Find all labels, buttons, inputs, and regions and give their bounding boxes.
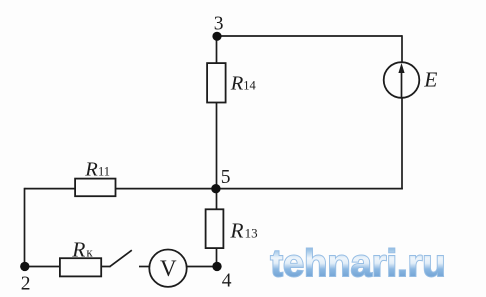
svg-text:2: 2 (21, 274, 31, 295)
svg-text:R: R (84, 158, 98, 180)
svg-text:14: 14 (243, 78, 256, 92)
svg-text:R: R (71, 237, 85, 261)
svg-text:4: 4 (222, 271, 232, 292)
svg-text:3: 3 (214, 14, 224, 35)
svg-text:E: E (423, 67, 437, 91)
svg-text:13: 13 (245, 226, 258, 241)
svg-text:к: к (86, 244, 93, 259)
svg-text:5: 5 (221, 167, 231, 188)
svg-text:V: V (160, 256, 177, 281)
svg-text:R: R (229, 219, 243, 243)
svg-text:R: R (230, 72, 244, 94)
svg-text:11: 11 (98, 164, 110, 178)
svg-text:tehnari.ru: tehnari.ru (270, 243, 445, 285)
